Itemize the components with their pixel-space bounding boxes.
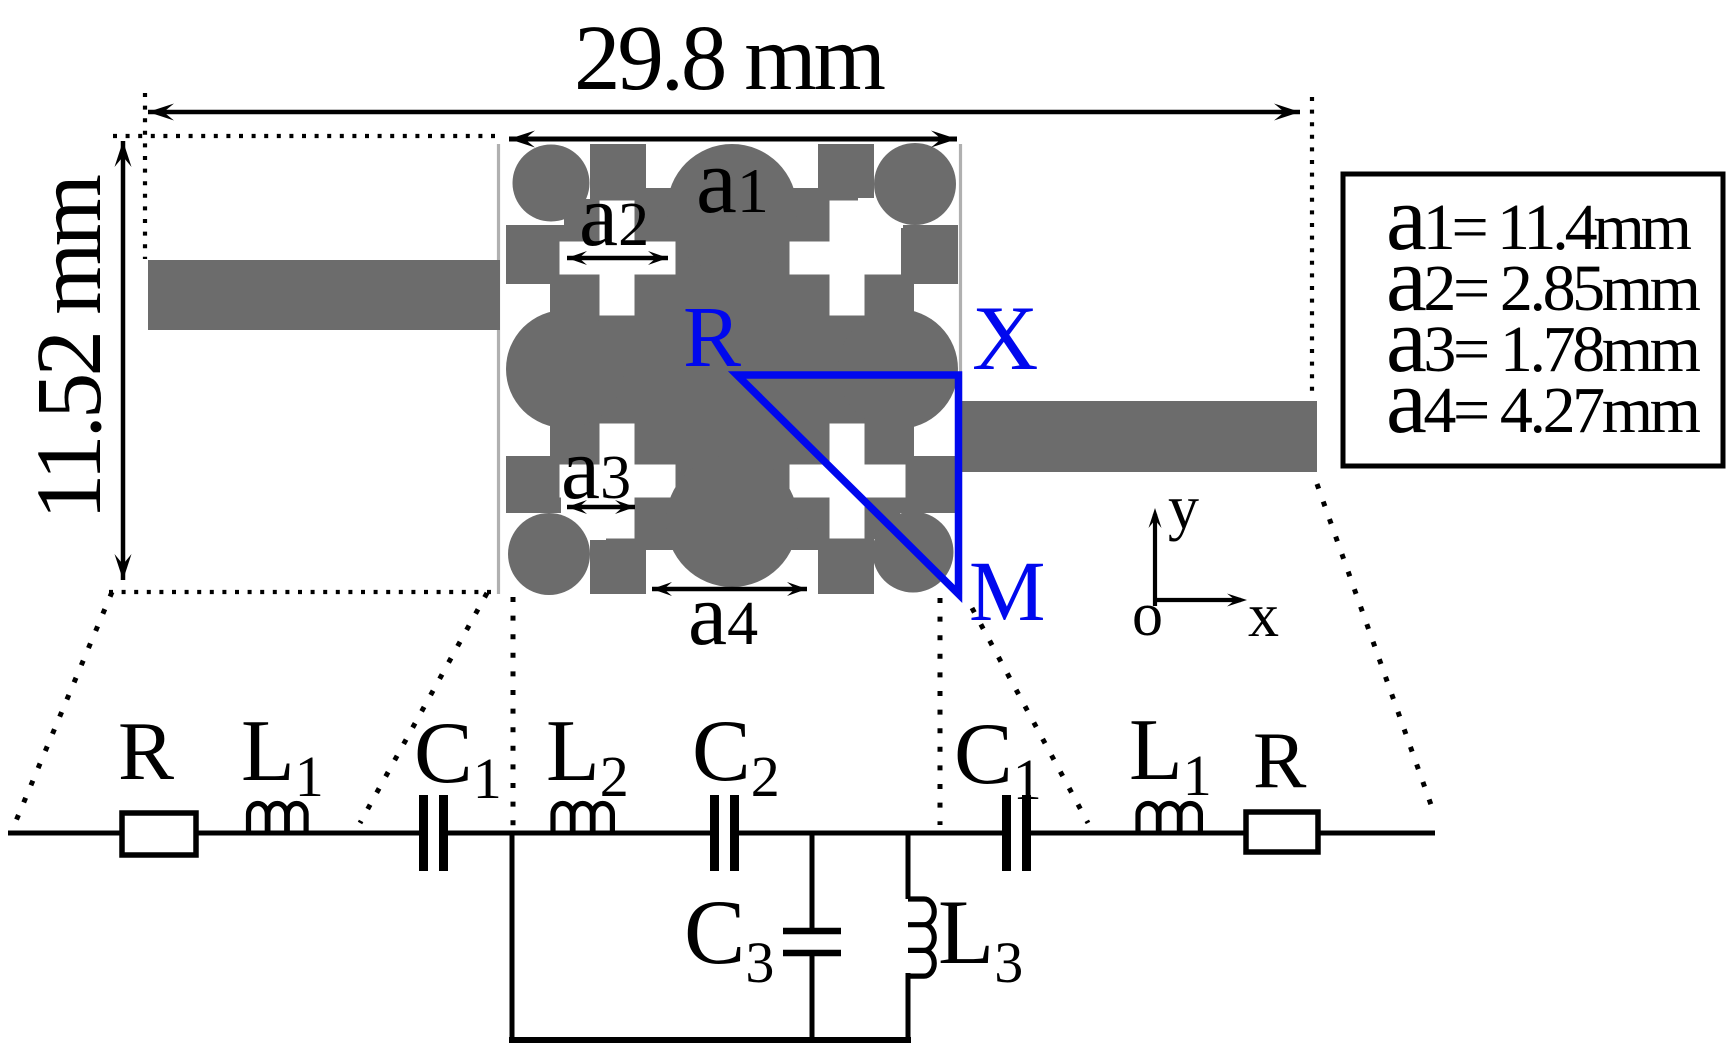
interior wedge near top-right corner xyxy=(858,198,903,268)
edge dome top xyxy=(667,144,797,274)
shunt branch left riser xyxy=(510,833,515,1043)
blue triangle R-X-M xyxy=(737,375,959,594)
block bottom-left inner xyxy=(506,456,548,510)
svg-text:x: x xyxy=(1248,582,1279,650)
dotted projection right inner xyxy=(972,608,1088,823)
cross slot upper-left xyxy=(560,201,676,316)
C3 branch upper wire xyxy=(810,833,815,932)
corner cuts (rounded corners) xyxy=(506,144,958,594)
dotted outline bottom xyxy=(109,590,497,594)
fractal patch base square xyxy=(506,144,958,594)
edge slot notches right xyxy=(914,284,958,456)
edge dome bottom xyxy=(666,455,798,587)
capacitor C2 xyxy=(715,795,735,871)
inductor L3 riser lower xyxy=(906,973,911,1043)
inductor L1 right xyxy=(1138,804,1200,836)
corner circle bottom-right xyxy=(873,512,954,593)
substrate right edge line xyxy=(959,144,962,594)
edge slot notches left xyxy=(506,284,550,456)
svg-text:11.52 mm: 11.52 mm xyxy=(18,174,121,520)
dimension arrow a2 xyxy=(567,251,668,265)
wire C2 to C1-right xyxy=(739,831,1002,836)
dotted outline left upper xyxy=(143,93,147,259)
wire C1-right to end xyxy=(1031,831,1435,836)
dotted projection left outer xyxy=(13,592,112,828)
corner bridge bottom-right xyxy=(873,512,900,539)
edge dome right xyxy=(838,309,958,429)
C3 branch lower wire xyxy=(810,953,815,1043)
dotted projection left inner xyxy=(360,593,487,823)
corner circle bottom-left xyxy=(508,513,590,595)
svg-text:M: M xyxy=(969,543,1045,639)
svg-text:R: R xyxy=(1253,717,1307,805)
dimension arrow 29.8 mm xyxy=(148,104,1300,121)
dotted projection patch-right vertical xyxy=(938,598,943,825)
parameter values box xyxy=(1343,174,1723,466)
inductor L2 xyxy=(553,804,612,836)
svg-text:29.8 mm: 29.8 mm xyxy=(574,7,886,110)
dotted outline top xyxy=(113,134,499,138)
svg-text:y: y xyxy=(1168,474,1199,542)
capacitor C3 xyxy=(783,931,841,953)
edge slot notches top xyxy=(646,144,818,188)
dimension arrow a3 xyxy=(567,500,635,514)
block top-right inner xyxy=(901,228,953,282)
edge slot notches bottom xyxy=(646,550,818,594)
wire main left segment xyxy=(8,831,419,836)
corner circle top-left xyxy=(513,145,590,222)
microstrip feed line right xyxy=(958,401,1317,472)
svg-text:o: o xyxy=(1132,581,1163,649)
corner bridge top-left xyxy=(564,199,591,226)
svg-text:R: R xyxy=(683,288,741,385)
svg-text:X: X xyxy=(972,287,1038,389)
substrate left edge line xyxy=(497,144,500,594)
coordinate axes o-x-y xyxy=(1149,508,1248,607)
edge dome left xyxy=(506,310,624,428)
dimension arrow a4 xyxy=(652,582,807,596)
inductor L1 left xyxy=(249,804,307,835)
dotted projection patch-left vertical xyxy=(511,597,516,828)
corner circle top-right xyxy=(874,143,956,225)
cross slot lower-right xyxy=(790,424,906,539)
dotted projection right outer xyxy=(1317,484,1435,816)
wire C1-left to C2 xyxy=(448,831,710,836)
cross slot lower-left xyxy=(560,424,676,539)
inductor L3 coil xyxy=(908,899,934,976)
microstrip feed line left xyxy=(148,260,500,330)
cross slot upper-right xyxy=(790,201,906,316)
dimension arrow a1 xyxy=(509,131,957,148)
capacitor C1 left xyxy=(424,795,444,871)
resistor R right xyxy=(1246,812,1318,852)
interior wedge near bottom-left corner xyxy=(561,470,606,540)
dotted outline right xyxy=(1310,97,1314,398)
shunt bottom rail xyxy=(509,1037,911,1043)
inductor L3 riser upper xyxy=(906,833,911,899)
capacitor C1 right xyxy=(1007,795,1027,871)
svg-text:R: R xyxy=(118,705,174,798)
dimension arrow 11.52 mm xyxy=(115,141,132,580)
resistor R left xyxy=(122,813,196,855)
